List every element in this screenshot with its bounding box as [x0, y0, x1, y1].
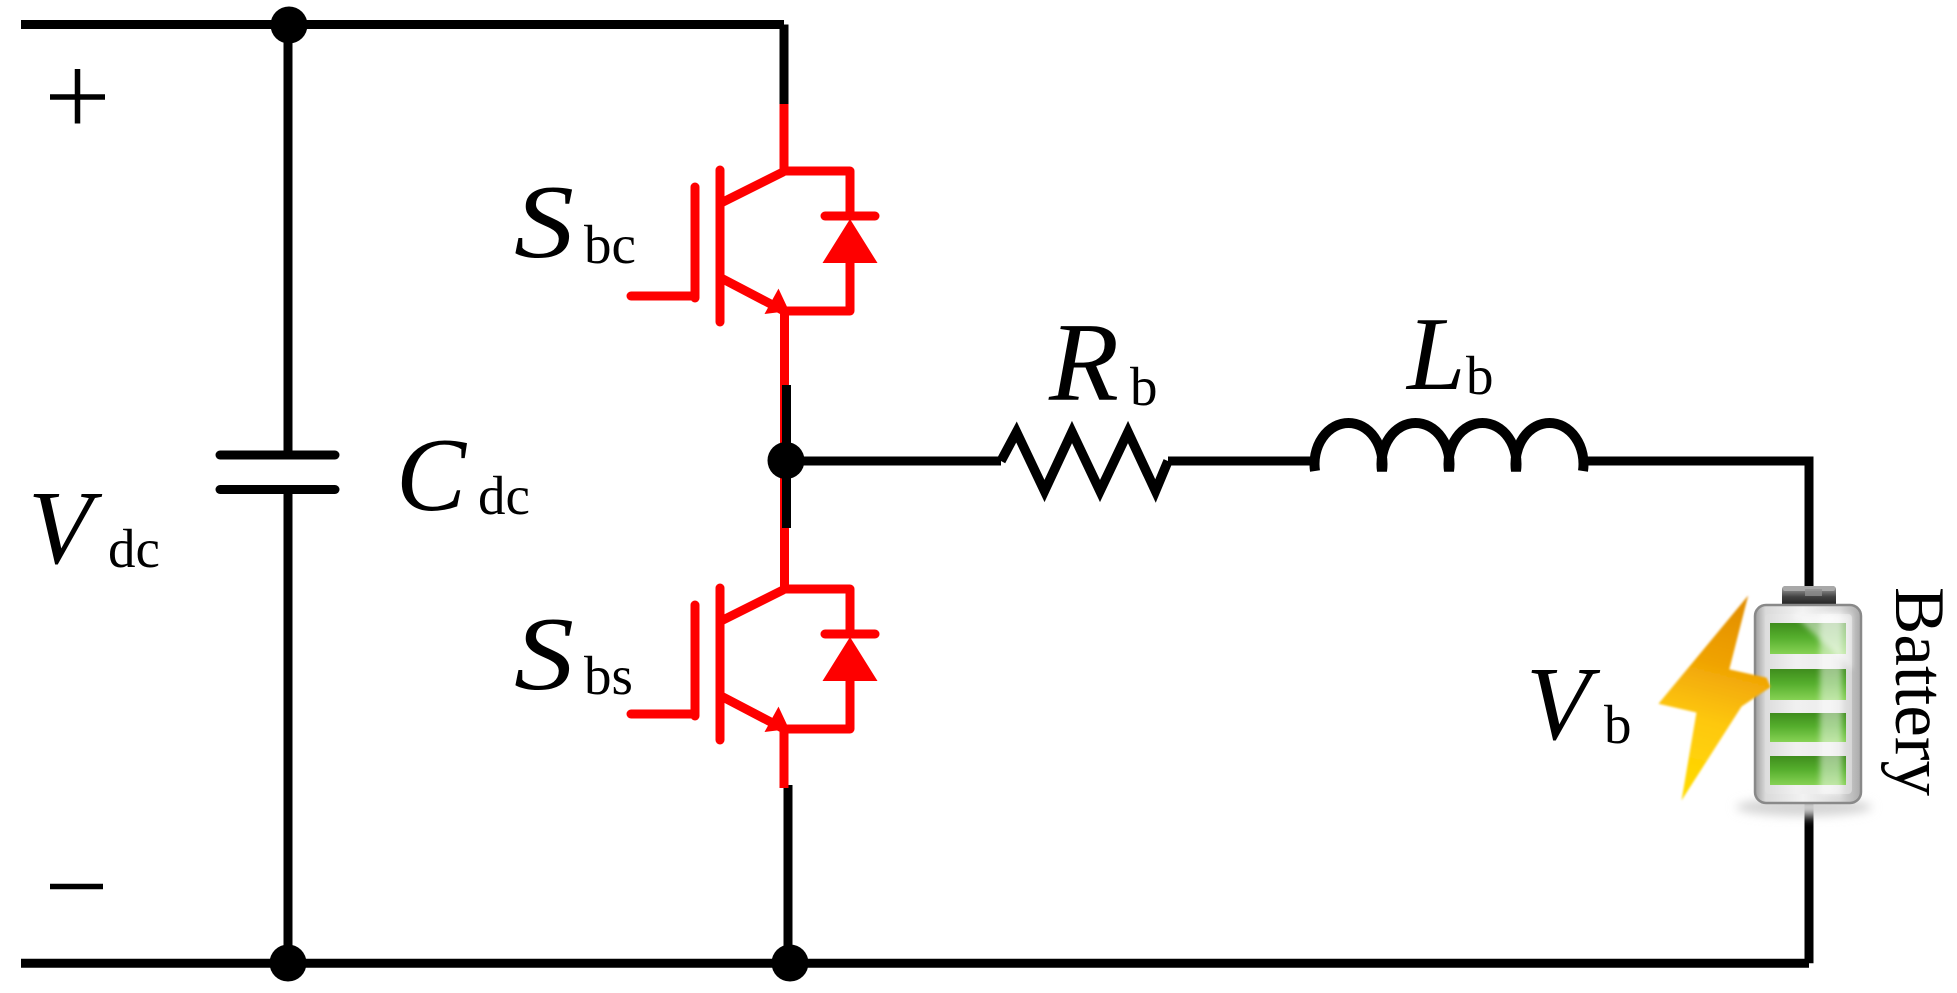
wire middle phase node to resistor: [786, 457, 1001, 466]
wire S_bs collector red lead: [780, 468, 789, 589]
svg-text:dc: dc: [108, 518, 160, 579]
S_bs gate lead: [631, 710, 695, 719]
S_bs gate bar: [691, 605, 700, 716]
battery V_b green cell bar 4: [1770, 756, 1846, 785]
svg-text:b: b: [1130, 356, 1158, 417]
S_bs emitter slant: [721, 696, 784, 729]
IGBT S_bc with antiparallel diode: [631, 104, 875, 452]
battery V_b green cell bar 1: [1770, 623, 1846, 654]
S_bs collector top rail: [784, 585, 850, 594]
label V_dc: [28, 469, 160, 586]
S_bc gate bar: [691, 187, 700, 298]
wire phase node black overlay: [782, 385, 791, 528]
S_bc collector bar link: [721, 172, 783, 203]
svg-text:R: R: [1048, 301, 1119, 425]
battery V_b outer shell: [1755, 605, 1861, 803]
svg-text:L: L: [1405, 295, 1465, 412]
battery V_b cap terminal: [1782, 586, 1836, 610]
wire capacitor top lead: [284, 24, 293, 451]
wire battery bottom lead: [1805, 790, 1814, 963]
S_bc body bar: [716, 170, 725, 322]
wire S_bc emitter red lead: [780, 311, 789, 452]
wire S_bs emitter black segment: [784, 785, 793, 963]
svg-text:V: V: [1526, 645, 1601, 762]
S_bc emitter arrow head: [765, 289, 790, 314]
S_bs collector bar link: [721, 590, 783, 621]
svg-text:dc: dc: [478, 465, 530, 526]
wire resistor to inductor: [1168, 457, 1315, 466]
wire bottom bus: [21, 959, 1809, 968]
label S_bs: [514, 595, 633, 712]
battery V_b green cell bar 3: [1770, 713, 1846, 742]
diode D_bc triangle: [823, 219, 878, 263]
node junction dot middle (phase node): [768, 442, 805, 479]
S_bs emitter arrow head: [765, 707, 790, 732]
label R_b: [1048, 301, 1158, 425]
lightning bolt: [1659, 596, 1771, 801]
diode D_bc cathode lead: [846, 171, 855, 215]
diode D_bc anode lead: [846, 260, 855, 311]
capacitor C_dc plates: [220, 455, 335, 490]
wire S_bc collector red lead: [780, 104, 789, 171]
diode D_bs cathode bar: [825, 630, 875, 639]
diode D_bs cathode lead: [846, 589, 855, 633]
label C_dc: [396, 416, 530, 533]
battery V_b corner sheen: [1793, 614, 1852, 670]
svg-text:b: b: [1466, 345, 1494, 406]
label V_b: [1526, 645, 1632, 762]
node junction dot top (+ bus / capacitor): [271, 7, 308, 44]
svg-text:bc: bc: [584, 214, 636, 275]
battery V_b shadow: [1736, 798, 1872, 816]
svg-text:b: b: [1604, 694, 1632, 755]
label S_bc: [514, 163, 636, 280]
wire S_bs emitter red lead: [780, 729, 789, 788]
diode D_bs anode lead: [846, 678, 855, 729]
battery V_b green cell bar 2: [1770, 669, 1846, 700]
S_bc emitter rail: [784, 307, 850, 316]
svg-text:Battery: Battery: [1880, 587, 1957, 796]
svg-text:bs: bs: [584, 645, 633, 706]
minus symbol: [50, 884, 103, 890]
wire capacitor bottom lead: [284, 493, 293, 963]
battery V_b vertical sheen: [1820, 613, 1842, 795]
node junction dot bottom left (capacitor / - bus): [270, 945, 307, 982]
IGBT S_bs with antiparallel diode: [631, 468, 875, 788]
resistor R_b: [1001, 432, 1168, 491]
diode D_bc cathode bar: [825, 212, 875, 221]
battery V_b inner face: [1765, 614, 1852, 794]
S_bc gate lead: [631, 292, 695, 301]
node junction dot bottom middle (S_bs emitter / - bus): [772, 945, 809, 982]
wire top right drop to S_bc collector: [780, 25, 789, 107]
S_bs emitter rail: [784, 725, 850, 734]
plus symbol: [50, 69, 105, 124]
S_bc emitter slant: [721, 278, 784, 311]
inductor L_b: [1315, 423, 1584, 471]
svg-text:C: C: [396, 416, 468, 533]
svg-text:S: S: [514, 163, 574, 280]
wire top bus: [21, 20, 784, 29]
svg-text:S: S: [514, 595, 574, 712]
wire inductor to battery corner: [1583, 461, 1809, 600]
S_bs body bar: [716, 588, 725, 740]
svg-text:V: V: [28, 469, 103, 586]
S_bc collector top rail: [784, 167, 850, 176]
label L_b: [1405, 295, 1494, 412]
diode D_bs triangle: [823, 637, 878, 681]
